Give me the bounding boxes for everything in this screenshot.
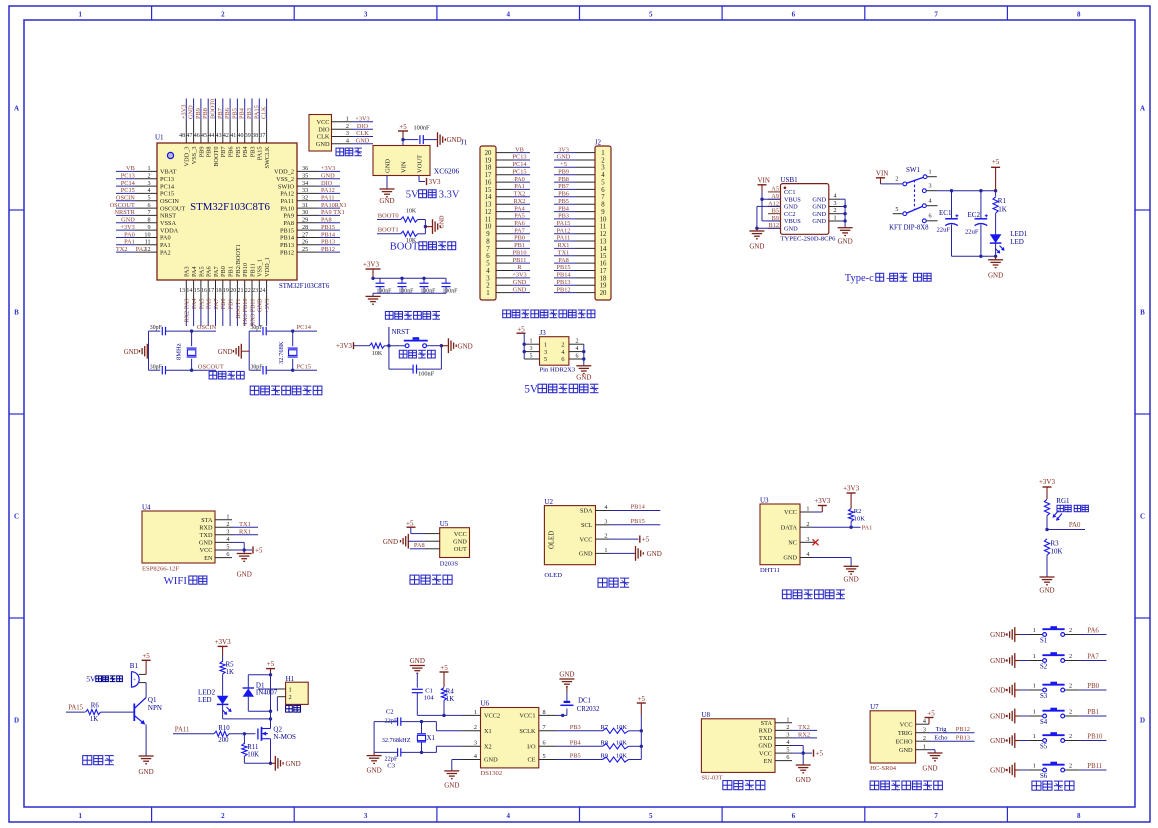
svg-text:200: 200 [218, 737, 229, 744]
svg-text:GND: GND [784, 226, 798, 233]
capacitor EC2 22uF [965, 191, 988, 257]
svg-text:1: 1 [1033, 763, 1036, 770]
svg-text:HC-SR04: HC-SR04 [870, 765, 897, 772]
ground GND BOOT [433, 215, 446, 234]
svg-text:GND: GND [812, 218, 826, 225]
svg-text:BOOT0: BOOT0 [213, 147, 220, 167]
svg-text:10K: 10K [854, 516, 866, 523]
chip U6 DS1302 [462, 700, 556, 778]
ground GND button S6 [990, 763, 1020, 778]
svg-text:SCL: SCL [581, 522, 593, 529]
U1 bottom pin 21 PB10 [238, 263, 250, 326]
svg-text:PB12: PB12 [321, 246, 335, 253]
svg-text:PB15: PB15 [280, 227, 294, 234]
J2 pin 9 net PB4 [554, 205, 605, 216]
svg-text:PB9: PB9 [198, 147, 205, 158]
title Type-c power circuit [845, 273, 931, 284]
wire VIN node [401, 138, 418, 146]
svg-text:GND: GND [513, 286, 527, 293]
svg-text:PB7: PB7 [217, 108, 224, 119]
svg-text:3: 3 [806, 536, 809, 543]
svg-text:D: D [14, 717, 19, 725]
svg-text:5V: 5V [86, 675, 96, 684]
svg-text:CC2: CC2 [784, 211, 796, 218]
capacitor 100nF at regulator [413, 125, 437, 145]
svg-text:32.768K: 32.768K [278, 341, 285, 364]
svg-text:+5: +5 [440, 664, 448, 672]
wire LED2 to drain node [223, 704, 273, 720]
svg-text:+3V3: +3V3 [336, 342, 353, 350]
svg-text:4: 4 [474, 753, 477, 760]
svg-text:GND: GND [812, 204, 826, 211]
svg-text:9: 9 [601, 209, 605, 216]
J2 pin 11 net PA15 [554, 220, 606, 231]
svg-text:26: 26 [302, 239, 308, 246]
svg-text:PB4: PB4 [239, 107, 246, 119]
svg-text:10: 10 [144, 231, 150, 238]
svg-text:IN4007: IN4007 [256, 689, 278, 697]
svg-text:100nF: 100nF [443, 288, 459, 294]
svg-text:J3: J3 [540, 329, 547, 337]
svg-text:GND: GND [758, 743, 772, 750]
resistor R6 1K [86, 703, 134, 723]
svg-text:2: 2 [1069, 709, 1072, 716]
svg-text:PB3: PB3 [246, 108, 253, 119]
svg-text:X1: X1 [484, 728, 492, 735]
svg-text:DATA: DATA [781, 524, 798, 531]
U1 right pin 28 PB15 [280, 224, 340, 234]
net NRST [387, 327, 410, 347]
svg-text:1K: 1K [446, 696, 454, 703]
ground GND LED rail [988, 256, 1003, 279]
svg-text:+5: +5 [142, 652, 150, 660]
wire wifi GND [232, 542, 246, 553]
svg-text:28: 28 [302, 224, 308, 231]
svg-text:PB8: PB8 [558, 176, 569, 183]
svg-text:2: 2 [895, 176, 898, 183]
svg-text:PA7: PA7 [514, 227, 525, 234]
svg-text:PA11: PA11 [321, 195, 335, 202]
svg-text:GND: GND [559, 671, 574, 679]
ground GND buzzer [139, 756, 154, 776]
wire switch output rail [938, 189, 998, 192]
svg-text:20: 20 [600, 290, 607, 297]
svg-text:47: 47 [186, 133, 192, 139]
svg-text:3: 3 [486, 275, 490, 282]
svg-text:NPN: NPN [148, 704, 162, 712]
svg-text:U1: U1 [155, 134, 164, 142]
svg-text:TX1: TX1 [239, 521, 251, 528]
svg-text:PA0: PA0 [124, 231, 135, 238]
power +3V3 filter caps [363, 261, 381, 279]
svg-text:GND: GND [844, 576, 859, 584]
U1 left pin 6 OSCOUT [110, 202, 186, 212]
transistor Q2 N-MOS [258, 725, 296, 741]
svg-text:+5: +5 [267, 660, 275, 668]
svg-text:CC1: CC1 [784, 189, 796, 196]
svg-text:C3: C3 [387, 763, 395, 770]
U1 right pin 27 PB14 [280, 231, 340, 241]
U1 bottom pin 19 PB1 [223, 266, 235, 326]
svg-text:PA2: PA2 [136, 246, 147, 253]
svg-text:2: 2 [148, 173, 151, 180]
wire DATA PA1 [812, 524, 872, 531]
svg-text:CE: CE [527, 757, 535, 764]
svg-text:STM32F103C8T6: STM32F103C8T6 [190, 201, 270, 213]
U1 top pin 41 PB5 [230, 99, 242, 158]
net BOOT1 [377, 227, 401, 234]
svg-text:8: 8 [543, 709, 546, 716]
svg-text:+5: +5 [992, 158, 1000, 166]
svg-text:SU-03T: SU-03T [701, 775, 722, 782]
svg-text:VIN: VIN [758, 177, 770, 185]
U1 bottom pin 23 VSS_1 [252, 259, 264, 326]
svg-text:35: 35 [302, 173, 308, 180]
svg-text:GND: GND [796, 776, 811, 784]
svg-text:PB15: PB15 [631, 518, 645, 525]
download header [309, 115, 373, 152]
U1 top pin 45 PB8 [201, 99, 213, 158]
ground GND ultrasonic [922, 750, 942, 773]
J2 pin 14 net RX1 [554, 242, 607, 253]
svg-text:VSSA: VSSA [160, 220, 177, 227]
svg-text:S6: S6 [1040, 773, 1048, 780]
svg-text:GND: GND [410, 657, 425, 665]
pin NC with no-connect X [812, 539, 819, 545]
J1 pin 12 net PA4 [485, 205, 530, 216]
capacitor C3 22pF [374, 748, 421, 769]
svg-text:3: 3 [474, 740, 477, 747]
svg-text:4: 4 [929, 198, 932, 205]
svg-text:PB2/BOOT1: PB2/BOOT1 [235, 244, 242, 277]
U1 right pin 35 VSS_2 [276, 173, 340, 183]
ground GND button S2 [990, 653, 1020, 668]
svg-text:1: 1 [79, 812, 83, 820]
svg-text:2: 2 [1069, 763, 1072, 770]
ground GND reset [440, 338, 473, 353]
svg-text:DIO: DIO [357, 123, 369, 130]
svg-text:VB: VB [515, 146, 524, 153]
U1 bottom pin 14 PA4 [186, 266, 198, 326]
ground GND button S4 [990, 709, 1020, 724]
net OSCOUT [190, 363, 224, 372]
svg-text:18: 18 [600, 275, 607, 282]
svg-text:Type-c: Type-c [845, 273, 874, 284]
connector H1 [277, 675, 308, 705]
svg-text:4: 4 [576, 346, 579, 352]
svg-text:4: 4 [833, 193, 836, 200]
svg-text:D: D [1140, 717, 1145, 725]
J2 pin 6 net PB7 [554, 183, 605, 194]
J1 pin 5 net PB11 [486, 257, 530, 268]
svg-text:2: 2 [1069, 653, 1072, 660]
svg-text:6: 6 [561, 356, 564, 363]
svg-text:GND: GND [453, 538, 467, 545]
svg-text:PC15: PC15 [121, 187, 135, 194]
switch SW1 KFT DIP-8X8 [889, 166, 937, 231]
svg-text:R4: R4 [446, 688, 455, 695]
svg-text:12: 12 [485, 209, 492, 216]
svg-text:100nF: 100nF [418, 371, 435, 378]
svg-text:17: 17 [485, 172, 492, 179]
svg-text:13: 13 [179, 288, 185, 294]
svg-text:PB14: PB14 [280, 235, 295, 242]
svg-text:PB0: PB0 [514, 235, 525, 242]
svg-text:PA8: PA8 [283, 220, 294, 227]
svg-text:14: 14 [186, 288, 192, 294]
svg-text:A5: A5 [771, 186, 779, 193]
resistor 10K BOOT1 [401, 231, 426, 244]
svg-text:S2: S2 [1040, 664, 1048, 671]
diode D1 IN4007 [243, 675, 278, 711]
capacitor 100nF filter 3 [420, 278, 437, 294]
svg-text:16: 16 [485, 180, 492, 187]
svg-text:7: 7 [148, 209, 151, 216]
svg-text:9: 9 [486, 231, 490, 238]
svg-text:10: 10 [485, 224, 492, 231]
title crystal circuit [209, 371, 244, 379]
svg-text:CLK: CLK [261, 106, 268, 119]
svg-text:1: 1 [604, 547, 607, 554]
svg-text:H1: H1 [286, 675, 295, 683]
svg-text:RXD: RXD [199, 525, 213, 532]
svg-text:1: 1 [79, 11, 83, 19]
power +3V3 R2 [843, 485, 860, 494]
svg-text:TX1: TX1 [558, 250, 570, 257]
svg-text:45: 45 [201, 133, 207, 139]
svg-text:1: 1 [833, 215, 836, 222]
title 5V external backup power [524, 384, 598, 396]
capacitor 100nF filter 2 [398, 278, 415, 294]
svg-text:PA11: PA11 [280, 198, 294, 205]
connector J2 [595, 139, 611, 301]
J2 pin 15 net TX1 [554, 250, 607, 261]
module U4 ESP8266-12F [142, 504, 232, 573]
svg-text:TX3 PB10: TX3 PB10 [242, 299, 249, 326]
net PB3 / resistor R7 10K [556, 724, 641, 733]
svg-text:1: 1 [1033, 683, 1036, 690]
svg-text:U4: U4 [142, 504, 151, 512]
resistor 10K reset [370, 343, 406, 357]
U1 right pin 34 SWIO [278, 180, 340, 190]
U1 top pin 40 PB4 [238, 99, 250, 158]
svg-text:VCC: VCC [759, 750, 772, 757]
J2 pin 1 net 3V3 [554, 146, 605, 157]
svg-text:5: 5 [544, 356, 547, 363]
svg-text:6: 6 [792, 812, 796, 820]
net PB4 / resistor R8 10K [556, 740, 641, 749]
power +3V3 photoresistor [1039, 478, 1056, 499]
svg-text:1: 1 [929, 168, 932, 175]
U1 right pin 32 PA11 [280, 195, 340, 205]
ground GND USB left [749, 228, 764, 250]
svg-text:3: 3 [601, 165, 605, 172]
J2 pin 5 net PB8 [554, 176, 605, 187]
wire buzzer to collector [145, 683, 147, 698]
svg-text:3: 3 [544, 349, 547, 356]
title human IR [410, 575, 452, 584]
svg-text:5: 5 [649, 812, 653, 820]
resistor R10 200 [214, 725, 256, 744]
svg-text:PB11: PB11 [1087, 763, 1102, 770]
svg-text:2: 2 [923, 735, 926, 742]
svg-text:TXD: TXD [200, 532, 213, 539]
svg-text:36: 36 [302, 165, 308, 172]
svg-text:8: 8 [486, 238, 490, 245]
svg-text:X1: X1 [427, 735, 435, 742]
U1 left pin 10 PA0 [116, 231, 171, 241]
ground GND IR [383, 534, 425, 549]
transistor Q1 NPN [134, 696, 162, 725]
svg-text:15: 15 [194, 288, 200, 294]
svg-text:8: 8 [601, 202, 605, 209]
wire +5 vertical node [269, 673, 272, 727]
switch S2 [1020, 652, 1080, 671]
svg-text:OLED: OLED [549, 531, 556, 549]
U1 top pin 38 PA15 [252, 99, 264, 161]
J1 pin 1 net GND [486, 286, 530, 297]
title download port [336, 148, 362, 156]
capacitor 30pF bottom-left [149, 364, 192, 374]
svg-text:+3V3: +3V3 [321, 165, 335, 172]
title temp humidity sensor [782, 590, 844, 599]
switch S6 [1020, 762, 1080, 781]
J2 pin 20 net PB12 [554, 286, 607, 297]
svg-text:16: 16 [600, 261, 607, 268]
svg-text:PA15: PA15 [68, 705, 83, 712]
svg-text:U5: U5 [440, 520, 449, 528]
crystal X1 32.768kHZ [382, 720, 435, 754]
svg-text:S5: S5 [1040, 744, 1048, 751]
svg-text:3: 3 [346, 130, 349, 137]
svg-text:GND: GND [383, 538, 398, 546]
svg-text:2: 2 [1069, 733, 1072, 740]
svg-text:1: 1 [1033, 733, 1036, 740]
U1 left pin 4 PC15 [116, 187, 174, 197]
svg-text:PB5: PB5 [231, 108, 238, 119]
svg-text:OSCOUT: OSCOUT [110, 202, 135, 209]
U1 right pin 25 PB12 [280, 246, 340, 256]
svg-text:5: 5 [543, 753, 546, 760]
net PA15 buzzer [66, 705, 85, 713]
svg-text:PA9 TX1: PA9 TX1 [321, 209, 345, 216]
svg-text:Q1: Q1 [148, 696, 157, 704]
U1 top pin 47 VSS_3 [186, 99, 198, 165]
svg-text:PB6: PB6 [228, 147, 235, 158]
title MCU pin headers [503, 310, 595, 318]
svg-text:2: 2 [226, 521, 229, 528]
ground GND battery [559, 671, 574, 693]
svg-text:27: 27 [302, 231, 308, 238]
svg-text:NRST: NRST [392, 328, 411, 336]
svg-text:19: 19 [485, 157, 492, 164]
svg-text:22uF: 22uF [965, 229, 979, 236]
power VIN USB [758, 177, 781, 221]
LED LED2 [198, 689, 232, 715]
svg-text:U7: U7 [870, 703, 879, 711]
svg-text:PB10: PB10 [513, 250, 527, 257]
svg-text:PA5: PA5 [198, 266, 205, 277]
svg-text:PA1: PA1 [514, 183, 525, 190]
title WIFI module [164, 575, 207, 587]
svg-text:2: 2 [561, 341, 564, 348]
svg-text:1: 1 [530, 339, 533, 345]
svg-text:5: 5 [486, 261, 490, 268]
svg-text:VBUS: VBUS [784, 196, 801, 203]
crystal Y 32.768K [278, 331, 298, 370]
svg-text:32.768kHZ: 32.768kHZ [382, 737, 411, 744]
svg-text:RXD: RXD [759, 728, 773, 735]
svg-text:2: 2 [486, 283, 490, 290]
power +3V3 LED2 [215, 638, 232, 656]
svg-text:PB1: PB1 [228, 266, 235, 277]
svg-text:GND: GND [257, 298, 264, 312]
net PC15 [291, 363, 317, 372]
svg-text:OSCIN: OSCIN [116, 195, 135, 202]
net PA6 button [1080, 627, 1107, 634]
svg-text:2: 2 [346, 123, 349, 130]
U1 bottom pin 24 VDD_1 [259, 257, 271, 326]
svg-text:GND: GND [321, 173, 335, 180]
svg-text:PB11: PB11 [249, 263, 256, 277]
svg-text:GND: GND [458, 342, 473, 350]
title buzzer [83, 756, 114, 765]
svg-text:S3: S3 [1040, 693, 1048, 700]
svg-text:34: 34 [302, 180, 308, 187]
svg-text:104: 104 [424, 695, 435, 702]
svg-text:4: 4 [604, 504, 607, 511]
J1 pin 14 net TX2 [485, 191, 530, 202]
svg-text:EC1: EC1 [939, 209, 952, 217]
svg-text:VCC1: VCC1 [519, 713, 535, 720]
svg-text:PC14: PC14 [297, 324, 312, 331]
net OSCIN [190, 324, 217, 333]
svg-text:42: 42 [223, 133, 229, 139]
svg-text:PA1: PA1 [124, 239, 135, 246]
svg-text:PA8: PA8 [558, 257, 569, 264]
svg-text:USB1: USB1 [781, 176, 799, 184]
svg-text:1K: 1K [998, 206, 1007, 214]
wire X1 to pin2 [422, 722, 463, 731]
svg-text:8: 8 [1077, 812, 1081, 820]
svg-text:PB13: PB13 [956, 735, 970, 742]
svg-text:VSS_1: VSS_1 [257, 259, 264, 277]
svg-text:VDD_1: VDD_1 [264, 257, 271, 277]
svg-text:GND: GND [440, 215, 446, 229]
svg-text:17: 17 [208, 288, 214, 294]
U1 top pin 42 PB6 [223, 99, 235, 158]
svg-text:GND: GND [379, 197, 394, 205]
svg-text:GND: GND [647, 550, 662, 558]
svg-text:C1: C1 [425, 688, 433, 695]
svg-text:PB5: PB5 [570, 753, 581, 760]
svg-text:U8: U8 [701, 711, 710, 719]
svg-text:2: 2 [786, 724, 789, 731]
svg-text:40: 40 [238, 133, 244, 139]
J1 pin 20 net VB [485, 146, 530, 157]
title 5V to 3.3V [406, 190, 460, 201]
power +5 R4 [440, 664, 449, 687]
svg-text:VDDA: VDDA [160, 227, 179, 234]
svg-text:PA7: PA7 [213, 266, 220, 277]
svg-text:STA: STA [201, 517, 213, 524]
svg-text:PA12: PA12 [557, 227, 571, 234]
module U5 D203S [425, 520, 470, 568]
USB right GND pins [829, 193, 845, 222]
svg-text:7: 7 [934, 11, 938, 19]
svg-text:NC: NC [788, 540, 797, 547]
svg-text:25: 25 [302, 246, 308, 253]
